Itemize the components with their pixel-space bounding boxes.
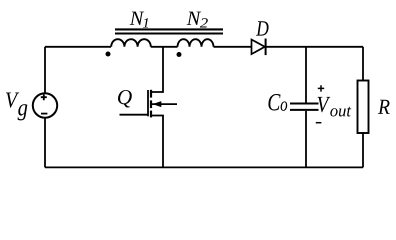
label Q [118, 90, 132, 108]
left rail upper segment [44, 47, 46, 93]
wire resistor to bottom rail [362, 133, 364, 167]
transistor Q gate lead [120, 114, 149, 116]
label Vg [6, 93, 27, 121]
transistor Q body lead with arrow [152, 101, 177, 107]
wire MOSFET drain (from N1/N2 junction) [152, 47, 164, 92]
wire diode to top-right corner [267, 46, 364, 48]
wire top rail to resistor [362, 47, 364, 81]
resistor R body [358, 81, 369, 134]
coupled inductor N2 winding [178, 39, 214, 47]
output plus sign [318, 85, 324, 91]
wire top rail left segment [45, 46, 111, 48]
magnetic core (double bar) [115, 29, 223, 33]
label N1 [130, 12, 149, 28]
wire between N1 and N2 [151, 46, 178, 48]
label D [256, 21, 269, 35]
diode D [252, 39, 266, 56]
left rail lower segment [44, 118, 46, 168]
capacitor Co plates [290, 104, 319, 110]
voltage source Vg [33, 93, 57, 117]
label Co [268, 94, 287, 111]
label N2 [187, 12, 208, 28]
transistor Q channel segments [150, 90, 152, 118]
wire MOSFET source to bottom rail [152, 116, 164, 168]
polarity dot N1 [106, 52, 111, 57]
output minus sign [316, 122, 322, 124]
capacitor Co lower lead [305, 111, 307, 167]
capacitor Co upper lead [305, 47, 307, 103]
wire bottom rail [45, 166, 363, 168]
label Vout [318, 97, 352, 117]
label R [378, 100, 390, 114]
transistor Q gate bar [147, 90, 149, 116]
wire N2 to diode anode [214, 46, 252, 48]
coupled inductor N1 winding [111, 39, 151, 47]
polarity dot N2 [177, 52, 182, 57]
